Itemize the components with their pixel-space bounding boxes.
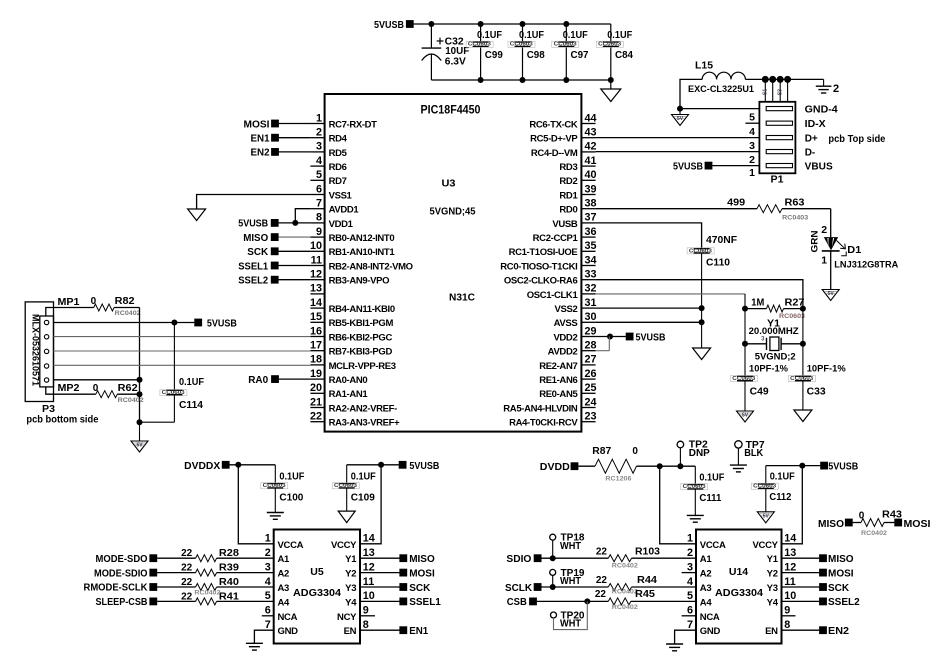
node EN1 (pin2)	[271, 134, 279, 142]
resistor R27	[742, 306, 748, 312]
svg-text:Y4: Y4	[345, 597, 357, 608]
svg-text:GND: GND	[700, 626, 721, 637]
svg-text:C84: C84	[615, 50, 633, 61]
svg-text:OSC2-CLKO-RA6: OSC2-CLKO-RA6	[504, 276, 578, 287]
svg-text:41: 41	[585, 155, 597, 167]
svg-text:MP2: MP2	[58, 383, 80, 394]
capacitor C111	[694, 466, 696, 484]
ground (U14 GND)	[666, 643, 683, 645]
svg-text:36: 36	[585, 226, 597, 238]
svg-text:R45: R45	[635, 589, 655, 600]
svg-text:RB2-AN8-INT2-VMO: RB2-AN8-INT2-VMO	[329, 261, 413, 272]
svg-text:20: 20	[310, 382, 322, 394]
node 5VUSB (U5)	[399, 461, 407, 469]
svg-text:10: 10	[310, 240, 322, 252]
node SCK (U5)	[360, 586, 400, 588]
svg-text:22: 22	[595, 589, 607, 600]
svg-text:AVSS: AVSS	[554, 318, 578, 329]
svg-text:CC0603: CC0603	[334, 483, 357, 489]
svg-text:DNP: DNP	[689, 448, 710, 459]
testpoint TP2	[677, 441, 684, 448]
svg-text:S3: S3	[778, 89, 784, 95]
svg-text:13: 13	[310, 283, 322, 295]
svg-text:SCK: SCK	[247, 247, 269, 258]
svg-text:1: 1	[821, 255, 827, 267]
svg-text:pcb Top side: pcb Top side	[828, 134, 885, 145]
wire D- (PIC 42 to P1)	[596, 151, 760, 153]
svg-text:0.1UF: 0.1UF	[563, 30, 588, 41]
svg-text:P3: P3	[42, 404, 55, 415]
svg-text:11: 11	[311, 254, 322, 266]
svg-text:RC0402: RC0402	[194, 590, 220, 597]
ground (C109)	[338, 511, 355, 522]
svg-text:28: 28	[585, 340, 597, 352]
svg-text:MLX-0532610571: MLX-0532610571	[31, 314, 41, 386]
svg-text:VDD2: VDD2	[553, 332, 577, 343]
svg-text:0.1UF: 0.1UF	[279, 471, 304, 482]
svg-text:C114: C114	[179, 400, 203, 411]
pin 19 U3	[310, 378, 324, 380]
svg-text:1: 1	[316, 112, 322, 124]
svg-text:RB5-KBI1-PGM: RB5-KBI1-PGM	[329, 318, 394, 329]
svg-text:RA1-AN1: RA1-AN1	[329, 389, 369, 400]
pin 10 U3	[310, 250, 324, 252]
svg-text:RMODE-SCLK: RMODE-SCLK	[84, 583, 148, 594]
svg-text:42: 42	[585, 141, 597, 153]
svg-text:R82: R82	[115, 296, 135, 307]
node SSEL1 (U5)	[360, 600, 400, 602]
ground (C110)	[693, 348, 711, 360]
svg-text:GND-4: GND-4	[805, 104, 838, 115]
svg-text:SSEL1: SSEL1	[409, 597, 441, 608]
svg-text:19: 19	[310, 368, 322, 380]
svg-text:2: 2	[687, 547, 693, 559]
pin 25 U3	[581, 392, 595, 394]
wire D1 to ground	[830, 251, 832, 290]
svg-text:5VUSB: 5VUSB	[636, 332, 666, 343]
pin 3 U3	[310, 151, 324, 153]
pin 35 U3	[581, 250, 595, 252]
ground (top cap bank)	[610, 80, 612, 89]
pin 16 U3	[310, 336, 324, 338]
svg-text:MCLR-VPP-RE3: MCLR-VPP-RE3	[329, 361, 396, 372]
svg-text:13: 13	[784, 547, 796, 559]
op-amp U3 PIC18F4450 body	[325, 94, 582, 432]
svg-text:CC0603: CC0603	[683, 484, 706, 490]
svg-text:3: 3	[687, 561, 693, 573]
capacitor C112	[765, 466, 767, 484]
svg-text:VCCY: VCCY	[752, 540, 778, 551]
svg-text:2: 2	[316, 127, 322, 139]
svg-text:C97: C97	[571, 50, 589, 61]
wire P3 pin2 to U3 pin16	[54, 336, 311, 338]
pin 28 U3	[581, 350, 595, 352]
svg-text:11: 11	[363, 576, 374, 588]
wire AVDD2 pin28 jog	[596, 350, 610, 352]
svg-text:5VGND;2: 5VGND;2	[755, 351, 796, 362]
svg-text:RE2-AN7: RE2-AN7	[539, 361, 577, 372]
wire P3 pin3 to U3 pin17	[54, 350, 311, 352]
svg-text:RB3-AN9-VPO: RB3-AN9-VPO	[329, 276, 390, 287]
svg-text:22: 22	[596, 575, 608, 586]
svg-text:1: 1	[265, 533, 271, 545]
ground (C100)	[267, 512, 284, 514]
svg-text:23: 23	[585, 411, 597, 423]
wire DVDD down to U14 VCCA	[660, 466, 696, 544]
ground (U5 GND)	[246, 642, 263, 644]
node junction P1 gnd	[677, 106, 683, 112]
svg-text:RD7: RD7	[329, 176, 347, 187]
wire R82 down to ground rail	[139, 308, 141, 423]
svg-text:R27: R27	[785, 298, 805, 309]
svg-text:4: 4	[265, 576, 271, 588]
svg-text:0.1UF: 0.1UF	[351, 471, 376, 482]
svg-text:35: 35	[585, 240, 597, 252]
pin 2 U3	[310, 137, 324, 139]
node EN2 (U14)	[782, 629, 820, 631]
svg-text:470NF: 470NF	[706, 235, 737, 246]
svg-text:499: 499	[727, 197, 745, 208]
svg-text:RB4-AN11-KBI0: RB4-AN11-KBI0	[329, 304, 395, 315]
node MISO (U14)	[782, 557, 820, 559]
wire 5VUSB down to U14 VCCY	[782, 466, 803, 544]
svg-text:RC0402: RC0402	[118, 397, 144, 404]
svg-text:0.1UF: 0.1UF	[699, 473, 724, 484]
svg-text:5VUSB: 5VUSB	[207, 318, 237, 329]
svg-text:DVDD: DVDD	[540, 462, 570, 473]
svg-text:A3: A3	[278, 583, 290, 594]
svg-text:5VGND;45: 5VGND;45	[430, 207, 476, 218]
svg-text:RC0402: RC0402	[612, 604, 638, 611]
node MODE-SDO	[149, 554, 157, 562]
svg-text:A1: A1	[700, 554, 713, 565]
svg-text:C49: C49	[750, 386, 769, 397]
svg-text:VSS2: VSS2	[554, 304, 577, 315]
svg-text:VDD1: VDD1	[329, 219, 354, 230]
node SCLK	[534, 583, 542, 591]
ground 5VGND (P1)	[679, 109, 681, 115]
pin 9 U14 stub	[782, 615, 796, 617]
capacitor C49	[744, 344, 746, 377]
svg-text:5: 5	[687, 590, 693, 602]
svg-text:6: 6	[316, 183, 322, 195]
svg-text:Y3: Y3	[767, 583, 778, 594]
wire VSS2 pin31	[596, 307, 702, 309]
capacitor C84	[610, 24, 612, 42]
svg-text:5VUSB: 5VUSB	[673, 161, 703, 172]
wire OSC2 pin33 to crystal right	[596, 280, 803, 309]
svg-text:8: 8	[316, 212, 322, 224]
svg-text:Y2: Y2	[767, 569, 778, 580]
svg-text:SDIO: SDIO	[506, 554, 531, 565]
svg-text:9: 9	[316, 226, 322, 238]
svg-text:MISO: MISO	[243, 233, 268, 244]
svg-text:LNJ312G8TRA: LNJ312G8TRA	[834, 259, 898, 270]
svg-text:MISO: MISO	[409, 554, 435, 565]
svg-text:CC0603: CC0603	[162, 390, 185, 396]
pin 38 U3	[581, 208, 595, 210]
svg-text:CC0603: CC0603	[510, 42, 533, 48]
svg-text:10: 10	[363, 590, 375, 602]
ground 5VGND (P3)	[139, 422, 141, 441]
svg-text:33: 33	[585, 269, 597, 281]
node MISO (pin9)	[271, 233, 279, 241]
pin 37 U3	[581, 222, 595, 224]
svg-text:SLEEP-CSB: SLEEP-CSB	[96, 597, 148, 608]
svg-text:CC0603: CC0603	[732, 376, 755, 382]
svg-text:5V: 5V	[763, 513, 770, 519]
svg-text:8: 8	[363, 619, 369, 631]
svg-text:NCA: NCA	[278, 612, 298, 623]
connector P3	[25, 302, 53, 402]
wire top rail	[414, 23, 611, 25]
svg-text:U3: U3	[442, 178, 456, 190]
svg-text:27: 27	[585, 354, 597, 366]
wire bottom rail	[431, 79, 610, 81]
svg-text:0.1UF: 0.1UF	[179, 377, 204, 388]
node SCK (U14)	[782, 586, 820, 588]
svg-text:25: 25	[585, 382, 597, 394]
pin 6 U3	[310, 194, 324, 196]
svg-text:EN2: EN2	[828, 626, 849, 637]
svg-text:RA2-AN2-VREF-: RA2-AN2-VREF-	[329, 403, 397, 414]
svg-text:RB6-KBI2-PGC: RB6-KBI2-PGC	[329, 332, 393, 343]
svg-text:C109: C109	[351, 493, 375, 504]
svg-text:RD2: RD2	[559, 176, 577, 187]
svg-text:14: 14	[784, 533, 796, 545]
svg-text:14: 14	[310, 297, 322, 309]
capacitor C33	[802, 344, 804, 377]
svg-text:EN1: EN1	[409, 626, 428, 637]
svg-text:5VUSB: 5VUSB	[409, 461, 439, 472]
svg-text:VCCY: VCCY	[331, 540, 357, 551]
pin 6 U5 NCA stub	[262, 615, 274, 617]
svg-text:SSEL2: SSEL2	[238, 276, 268, 287]
svg-text:43: 43	[585, 127, 597, 139]
pin 44 U3	[581, 123, 595, 125]
svg-text:VBUS: VBUS	[805, 162, 833, 173]
svg-text:SSEL1: SSEL1	[238, 261, 268, 272]
svg-text:R44: R44	[637, 575, 657, 586]
svg-text:NCY: NCY	[337, 612, 357, 623]
svg-text:12: 12	[784, 561, 796, 573]
wire MP1	[46, 308, 54, 317]
svg-text:SCK: SCK	[409, 583, 431, 594]
svg-text:CC0603: CC0603	[790, 376, 813, 382]
svg-text:R87: R87	[592, 446, 611, 457]
svg-text:22: 22	[310, 411, 322, 423]
svg-text:U14: U14	[729, 566, 748, 578]
svg-text:0.1UF: 0.1UF	[519, 30, 544, 41]
wire TP7 to ground	[737, 448, 739, 465]
svg-text:RA3-AN3-VREF+: RA3-AN3-VREF+	[329, 418, 400, 429]
svg-text:10PF-1%: 10PF-1%	[749, 363, 789, 374]
svg-text:1: 1	[749, 167, 755, 179]
svg-text:22: 22	[181, 563, 193, 574]
svg-text:3: 3	[749, 140, 755, 152]
wire U14 GND to ground	[675, 630, 696, 644]
svg-text:RB1-AN10-INT1: RB1-AN10-INT1	[329, 247, 396, 258]
svg-text:R62: R62	[118, 383, 138, 394]
pin 9 U5 NCY stub	[360, 615, 375, 617]
capacitor C110	[694, 248, 710, 250]
svg-text:RD1: RD1	[559, 190, 578, 201]
wire VSS1 to ground	[197, 195, 311, 210]
pin 9 U3	[310, 236, 324, 238]
svg-text:VCCA: VCCA	[278, 540, 304, 551]
svg-text:RC0603: RC0603	[779, 313, 805, 320]
svg-text:OSC1-CLK1: OSC1-CLK1	[527, 290, 579, 301]
node RMODE-SCLK	[149, 583, 157, 591]
svg-text:RD3: RD3	[559, 162, 577, 173]
pin 7 U3	[310, 208, 324, 210]
capacitor C109	[346, 465, 348, 484]
svg-text:SSEL2: SSEL2	[828, 597, 860, 608]
pin 18 U3	[310, 364, 324, 366]
svg-text:PIC18F4450: PIC18F4450	[421, 103, 481, 117]
svg-text:22: 22	[596, 547, 608, 558]
svg-text:R103: R103	[635, 547, 660, 558]
svg-text:0: 0	[632, 446, 638, 457]
node RA0 (pin19)	[271, 375, 279, 383]
svg-text:MISO: MISO	[818, 519, 844, 530]
pin 22 U3	[310, 421, 324, 423]
pin 23 U3	[581, 421, 595, 423]
svg-text:3: 3	[316, 141, 322, 153]
wire P3 pin1 to 5VUSB	[54, 322, 195, 324]
svg-text:AVDD2: AVDD2	[548, 347, 578, 358]
svg-text:6.3V: 6.3V	[445, 56, 466, 67]
svg-text:RC2-CCP1: RC2-CCP1	[533, 233, 579, 244]
svg-text:RD5: RD5	[329, 148, 348, 159]
ground 5VGND (C49)	[737, 411, 754, 422]
pin 8 U3	[310, 222, 324, 224]
svg-text:VCCA: VCCA	[700, 540, 726, 551]
svg-text:5VUSB: 5VUSB	[238, 219, 268, 230]
pin 39 U3	[581, 194, 595, 196]
svg-text:29: 29	[585, 325, 597, 337]
wire crystal verticals	[744, 309, 746, 344]
svg-text:RC5-D+-VP: RC5-D+-VP	[530, 134, 578, 145]
node EN2 (pin3)	[271, 148, 279, 156]
node 5VUSB (U14)	[820, 462, 828, 470]
svg-text:EN: EN	[344, 626, 357, 637]
svg-text:N31C: N31C	[449, 292, 475, 304]
svg-text:RC0402: RC0402	[612, 563, 638, 570]
node 5VUSB (top rail)	[406, 20, 414, 28]
svg-text:S1: S1	[763, 89, 769, 95]
node MOSI (U5)	[360, 572, 400, 574]
svg-text:0.1UF: 0.1UF	[770, 472, 795, 483]
node DVDD	[571, 462, 579, 470]
pin 36 U3	[581, 236, 595, 238]
svg-text:15: 15	[310, 311, 322, 323]
svg-text:2: 2	[833, 83, 839, 95]
node SSEL2 (U14)	[782, 600, 820, 602]
pin 29 U3	[581, 336, 595, 338]
wire L15 left to gnd node	[680, 79, 702, 108]
wire AVDD1 jog	[295, 209, 310, 223]
svg-text:6: 6	[265, 605, 271, 617]
svg-text:ADG3304: ADG3304	[293, 587, 341, 599]
svg-text:32: 32	[585, 283, 597, 295]
pin 4 U3	[310, 165, 324, 167]
svg-text:pcb bottom side: pcb bottom side	[26, 415, 98, 426]
wire VBUS	[712, 165, 759, 167]
svg-text:R63: R63	[785, 197, 805, 208]
svg-text:BLK: BLK	[744, 448, 763, 459]
svg-text:U5: U5	[310, 566, 324, 578]
svg-text:17: 17	[310, 340, 322, 352]
svg-text:NCA: NCA	[700, 612, 720, 623]
wire OSC1 pin32 to crystal left	[596, 293, 745, 295]
svg-text:RC4-D--VM: RC4-D--VM	[531, 148, 578, 159]
ground 5VGND (C112)	[757, 512, 774, 523]
wire P1 ID-X stub	[745, 122, 759, 124]
svg-text:5V: 5V	[828, 291, 835, 297]
svg-text:CC0603: CC0603	[689, 248, 712, 254]
pin 13 U3	[310, 293, 324, 295]
svg-text:7: 7	[265, 619, 271, 631]
node SCK (pin10)	[271, 247, 279, 255]
svg-text:GRN: GRN	[810, 230, 821, 252]
svg-text:ADG3304: ADG3304	[715, 587, 763, 599]
svg-text:EN1: EN1	[251, 134, 270, 145]
svg-text:9: 9	[363, 605, 369, 617]
pin 34 U3	[581, 265, 595, 267]
svg-text:8: 8	[784, 619, 790, 631]
svg-text:CC0603: CC0603	[468, 42, 491, 48]
svg-text:RB7-KBI3-PGD: RB7-KBI3-PGD	[329, 347, 393, 358]
svg-text:9: 9	[784, 605, 790, 617]
pin 15 U3	[310, 321, 324, 323]
svg-text:RD6: RD6	[329, 162, 347, 173]
svg-text:RA0: RA0	[248, 375, 268, 386]
node DVDDX	[222, 461, 230, 469]
svg-text:10: 10	[784, 590, 796, 602]
node MISO (U5)	[360, 557, 400, 559]
svg-text:RC0402: RC0402	[861, 530, 887, 537]
wire C109 to 5VUSB	[347, 464, 399, 466]
ground (C111)	[687, 514, 704, 516]
svg-text:C33: C33	[807, 386, 826, 397]
svg-text:CC0603: CC0603	[263, 483, 286, 489]
capacitor C114	[173, 323, 175, 391]
svg-text:Y1: Y1	[345, 554, 357, 565]
node 5VUSB (pin29 VDD2)	[596, 336, 626, 338]
svg-text:1: 1	[687, 533, 693, 545]
svg-text:5V: 5V	[677, 116, 684, 122]
pin 21 U3	[310, 407, 324, 409]
wire TP20 loop to CSB	[554, 601, 588, 629]
pin3 U14 stub	[682, 572, 696, 574]
svg-text:RE0-AN5: RE0-AN5	[539, 389, 578, 400]
svg-text:EN: EN	[765, 626, 778, 637]
node SSEL2 (pin12)	[271, 276, 279, 284]
node MODE-SDIO	[149, 569, 157, 577]
svg-text:MP1: MP1	[58, 297, 80, 308]
svg-text:5: 5	[265, 590, 271, 602]
ground 2 (shield)	[823, 79, 825, 86]
svg-text:RD4: RD4	[329, 134, 348, 145]
node MOSI (U14)	[782, 572, 820, 574]
svg-text:WHT: WHT	[560, 576, 581, 587]
svg-text:44: 44	[585, 112, 597, 124]
svg-text:22: 22	[181, 577, 193, 588]
ground 5VGND (D1)	[822, 290, 839, 301]
svg-text:VUSB: VUSB	[552, 219, 577, 230]
pin 24 U3	[581, 407, 595, 409]
